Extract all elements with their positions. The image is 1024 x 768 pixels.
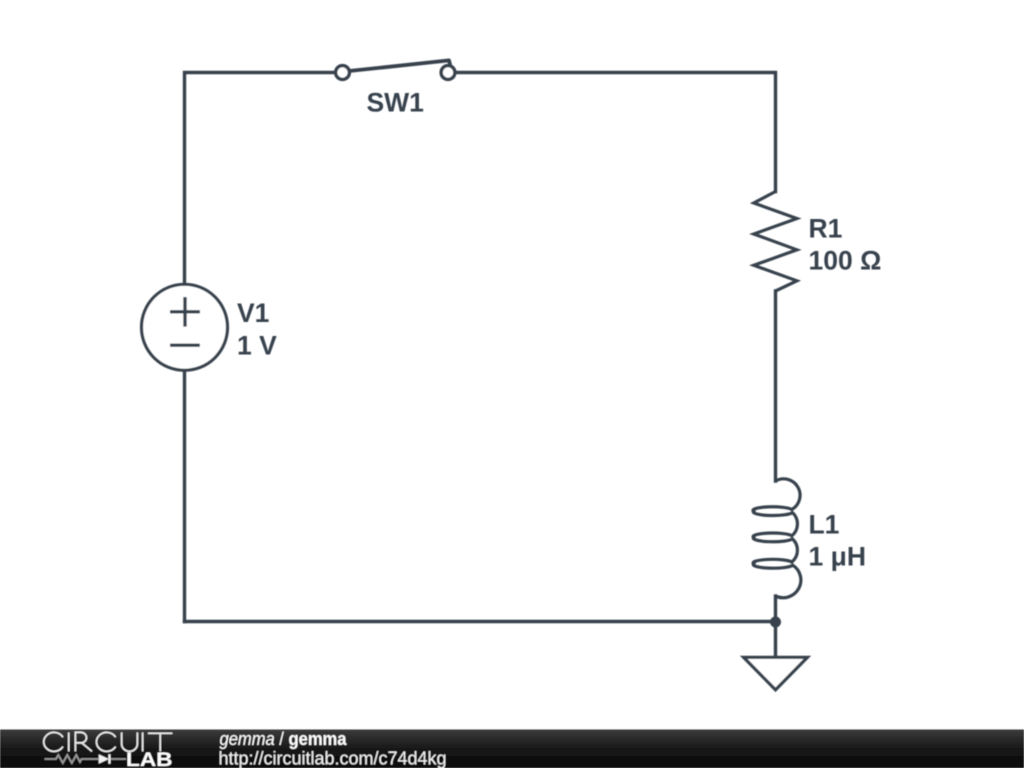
inductor L1 coil	[753, 479, 801, 598]
letter T	[148, 733, 172, 751]
svg-text:100 Ω: 100 Ω	[809, 246, 882, 276]
svg-text:1 V: 1 V	[237, 331, 277, 361]
letter I	[68, 732, 70, 751]
letter I	[142, 732, 144, 751]
logo CIRCUIT letters	[44, 732, 173, 751]
wire top-left: V1 top to SW1 left terminal	[185, 73, 335, 285]
letter C	[96, 732, 115, 751]
wire bottom: to junction under L1	[185, 620, 776, 623]
svg-text:1 μH: 1 μH	[809, 542, 866, 572]
letter U	[122, 732, 138, 751]
letter C	[44, 732, 63, 751]
svg-text:gemma / gemma: gemma / gemma	[220, 729, 348, 749]
V1 plus sign	[170, 297, 200, 327]
svg-text:V1: V1	[237, 298, 269, 328]
wire: L1 bottom to junction	[774, 596, 777, 622]
voltage source V1 circle	[142, 284, 228, 370]
resistor R1 zigzag	[754, 192, 797, 292]
footer bar	[0, 730, 1024, 768]
svg-text:LAB: LAB	[126, 750, 173, 768]
svg-text:L1: L1	[809, 510, 840, 540]
V1 minus sign	[170, 344, 200, 347]
wire top-right: SW1 right terminal to R1 top	[457, 73, 776, 192]
svg-text:SW1: SW1	[367, 88, 424, 118]
logo diode bar	[108, 754, 110, 764]
wire: V1 bottom to bottom-left corner	[183, 371, 186, 622]
wire: junction to ground	[774, 622, 777, 658]
svg-text:http://circuitlab.com/c74d4kg: http://circuitlab.com/c74d4kg	[219, 749, 447, 768]
wire: R1 bottom to L1 top	[774, 291, 777, 481]
switch SW1 blade	[350, 60, 450, 71]
svg-text:R1: R1	[809, 214, 843, 244]
ground symbol triangle	[744, 657, 808, 690]
switch SW1 left terminal	[336, 66, 350, 80]
junction node dot	[770, 617, 781, 628]
letter R	[75, 732, 92, 751]
switch SW1 right terminal	[441, 66, 455, 80]
logo squiggle wire with resistor	[45, 755, 127, 763]
logo diode triangle	[99, 754, 109, 764]
